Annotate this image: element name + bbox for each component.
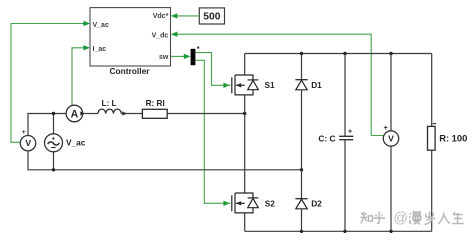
wire V1 top to AC hot node bbox=[28, 114, 66, 136]
svg-text:C: C: C: C bbox=[318, 134, 335, 144]
arrowhead into Vdc* port bbox=[171, 13, 178, 18]
svg-text:500: 500 bbox=[203, 12, 220, 23]
wire sw to demux bbox=[171, 55, 185, 57]
svg-text:V_dc: V_dc bbox=[152, 33, 169, 40]
V-leg wire voltmeter to bottom rail bbox=[390, 146, 392, 231]
svg-text:R: 100: R: 100 bbox=[439, 132, 467, 143]
wire V_dc from voltmeter V2 to controller bbox=[177, 34, 384, 135]
arrowhead into V_dc port bbox=[171, 32, 178, 37]
svg-text:L: L: L: L bbox=[101, 99, 116, 108]
arrowhead into S2 gate bbox=[223, 201, 230, 206]
char 知 bbox=[360, 212, 372, 224]
node dot top rail D-leg bbox=[300, 52, 303, 55]
MOSFET S2 bbox=[226, 193, 275, 213]
svg-text:@: @ bbox=[393, 211, 408, 227]
R-leg wire load resistor to bottom rail bbox=[431, 150, 433, 231]
node dot bottom rail C-leg bbox=[343, 230, 346, 233]
wire source bottom tee bbox=[53, 152, 55, 170]
node dot source top bbox=[52, 112, 55, 115]
ammeter A1 bbox=[66, 105, 83, 122]
voltmeter V1 (AC side) bbox=[20, 129, 35, 151]
wire demux out1 to S1 gate bbox=[195, 53, 224, 86]
node dot bottom rail V-leg bbox=[389, 230, 392, 233]
node dot top rail C-leg bbox=[343, 52, 346, 55]
svg-text:S1: S1 bbox=[265, 80, 276, 90]
char 人 bbox=[438, 212, 450, 224]
AC voltage source V_ac bbox=[45, 134, 86, 152]
arrowhead into I_ac port bbox=[83, 45, 90, 50]
D-leg wire D1 anode to D2 cathode bbox=[301, 90, 303, 199]
svg-text:S2: S2 bbox=[265, 199, 276, 209]
diode D1 bbox=[295, 80, 322, 90]
svg-text:+: + bbox=[384, 123, 389, 132]
svg-text:+: + bbox=[51, 135, 55, 142]
svg-text:+: + bbox=[22, 129, 26, 136]
controller U1 box bbox=[90, 8, 171, 66]
svg-text:V: V bbox=[388, 134, 394, 144]
S-leg wire S2 source to bottom rail bbox=[244, 213, 246, 231]
D-leg wire D2 anode to bottom rail bbox=[301, 209, 303, 232]
svg-text:D2: D2 bbox=[311, 199, 322, 209]
node dot source bottom bbox=[52, 168, 55, 171]
wire resistor to S-leg midpoint bbox=[167, 113, 245, 115]
bottom DC rail bbox=[245, 230, 432, 232]
watermark 知乎 @漫步人生 bbox=[360, 212, 463, 225]
wire demux out2 to S2 gate bbox=[195, 60, 224, 203]
node dot S-leg midpoint bbox=[243, 112, 246, 115]
node dot top rail V-leg bbox=[389, 52, 392, 55]
node dot AC return at D-leg bbox=[300, 168, 303, 171]
svg-text:Controller: Controller bbox=[109, 66, 150, 76]
svg-text:A: A bbox=[71, 109, 79, 121]
wire inductor to resistor with port arrow bbox=[121, 113, 142, 115]
diode D2 bbox=[295, 199, 322, 209]
D-leg wire top rail to D1 cathode bbox=[301, 54, 303, 80]
svg-text:+: + bbox=[348, 129, 352, 136]
svg-text:V: V bbox=[25, 138, 31, 148]
resistor R1 R: Rl bbox=[142, 99, 167, 118]
wire ammeter to inductor with port arrow bbox=[83, 113, 98, 115]
wire I_ac measurement to controller I_ac bbox=[72, 48, 84, 106]
C-leg wire capacitor to bottom rail bbox=[344, 140, 346, 232]
S-leg wire S1 source to S2 drain bbox=[244, 95, 246, 193]
svg-text:R: Rl: R: Rl bbox=[146, 99, 165, 108]
arrowhead into V_ac port bbox=[83, 21, 90, 26]
svg-text:sw: sw bbox=[159, 54, 169, 61]
char 漫 bbox=[409, 212, 420, 224]
arrowhead into demux bbox=[184, 54, 191, 59]
voltmeter V2 (DC side) bbox=[383, 123, 398, 146]
char 乎 bbox=[374, 212, 385, 224]
port arrowhead after ammeter bbox=[80, 111, 85, 115]
constant block 500 bbox=[199, 8, 224, 24]
top DC rail bbox=[245, 53, 432, 55]
capacitor C1 C: C bbox=[318, 129, 353, 144]
char 生 bbox=[452, 212, 464, 224]
R-leg wire top rail to load resistor bbox=[431, 54, 433, 127]
demux sample-time dot bbox=[197, 47, 199, 49]
svg-text:V_ac: V_ac bbox=[93, 22, 109, 29]
wire 500 to Vdc* bbox=[177, 15, 200, 17]
wire V_ac measurement to controller V_ac bbox=[11, 24, 84, 143]
S-leg wire top rail to S1 drain bbox=[244, 54, 246, 76]
svg-text:Vdc*: Vdc* bbox=[153, 13, 169, 20]
MOSFET S1 bbox=[226, 75, 275, 95]
svg-text:D1: D1 bbox=[311, 80, 322, 90]
port arrowhead after inductor bbox=[122, 111, 127, 115]
load resistor R2 R: 100 bbox=[428, 124, 468, 151]
wire V1 bottom to AC return bbox=[28, 151, 302, 169]
svg-text:V_ac: V_ac bbox=[66, 137, 86, 147]
demux bar bbox=[191, 49, 196, 65]
svg-text:I_ac: I_ac bbox=[93, 46, 107, 53]
inductor L1 L: L bbox=[98, 99, 121, 114]
wire source top tee bbox=[53, 114, 55, 134]
char 步 bbox=[424, 212, 435, 225]
node dot bottom rail D-leg bbox=[300, 230, 303, 233]
V-leg wire top rail to voltmeter V2 bbox=[390, 54, 392, 131]
C-leg wire top rail to capacitor bbox=[344, 54, 346, 137]
arrowhead into S1 gate bbox=[223, 83, 230, 88]
